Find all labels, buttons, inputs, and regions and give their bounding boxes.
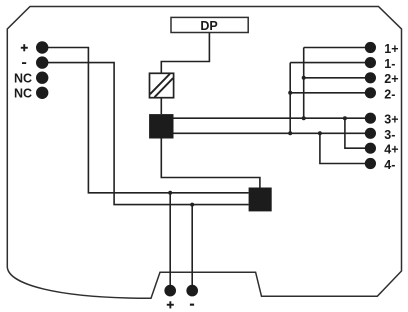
node: 4- branch junction	[318, 131, 322, 135]
terminal - (bottom)	[186, 285, 198, 297]
wire: isolator U1 to supply block U3	[160, 98, 162, 114]
terminal - (left)	[36, 56, 48, 68]
wire: 2+ line	[304, 77, 371, 79]
svg-text:3-: 3-	[384, 128, 395, 142]
wire: DP box to isolator U1	[161, 33, 209, 74]
wire: 3+ line from U3	[174, 117, 371, 119]
svg-text:2+: 2+	[384, 72, 398, 86]
node: junction on - bus	[190, 203, 194, 207]
svg-text:NC: NC	[14, 71, 32, 85]
wire: 3- line from U3	[174, 132, 371, 134]
terminal 2+	[365, 72, 376, 83]
node: 3- / minus bus junction	[288, 131, 292, 135]
wire: 2- line	[290, 92, 370, 94]
terminal 2-	[365, 87, 376, 98]
terminal 1-	[365, 57, 376, 68]
wire: 1- line	[290, 62, 370, 64]
converter U2 (filled square)	[249, 188, 272, 212]
wire: 1+ line	[304, 47, 371, 49]
wire: + input to converter U2	[42, 48, 248, 193]
terminal 3+	[365, 113, 376, 124]
wire: - bus down to bottom - terminal	[191, 205, 193, 291]
node: 2- junction	[288, 91, 292, 95]
terminal NC 2	[36, 87, 48, 99]
terminal 4+	[365, 143, 376, 154]
node: 3+ / plus bus junction	[302, 116, 306, 120]
terminal + (bottom)	[164, 285, 176, 297]
node: 4+ branch junction	[343, 116, 347, 120]
svg-text:NC: NC	[14, 86, 32, 100]
terminal 4-	[365, 158, 376, 169]
svg-text:DP: DP	[200, 19, 217, 33]
terminal 1+	[365, 42, 376, 53]
wire: supply block U3 to converter U2	[161, 139, 260, 188]
wire: 4+ branch	[345, 118, 371, 148]
wire: plus bus vertical to 1+/2+	[303, 48, 305, 119]
svg-text:1+: 1+	[384, 42, 398, 56]
svg-text:4-: 4-	[384, 158, 395, 172]
node: 2+ junction	[302, 76, 306, 80]
node: junction on + bus	[168, 191, 172, 195]
wire: 4- branch	[320, 133, 371, 163]
wire: minus bus vertical to 1-/2-	[289, 63, 291, 134]
DP box	[171, 17, 248, 32]
terminal NC 1	[36, 72, 48, 84]
isolator U1 (square with diagonal band)	[150, 73, 174, 97]
supply block U3 (filled square)	[149, 114, 173, 138]
wire: + bus down to bottom + terminal	[169, 193, 171, 291]
terminal 3-	[365, 128, 376, 139]
svg-text:2-: 2-	[384, 87, 395, 101]
svg-text:3+: 3+	[384, 113, 398, 127]
svg-text:1-: 1-	[384, 57, 395, 71]
wire: - input to converter U2	[42, 63, 248, 205]
svg-text:4+: 4+	[384, 143, 398, 157]
terminal + (left)	[36, 41, 48, 53]
